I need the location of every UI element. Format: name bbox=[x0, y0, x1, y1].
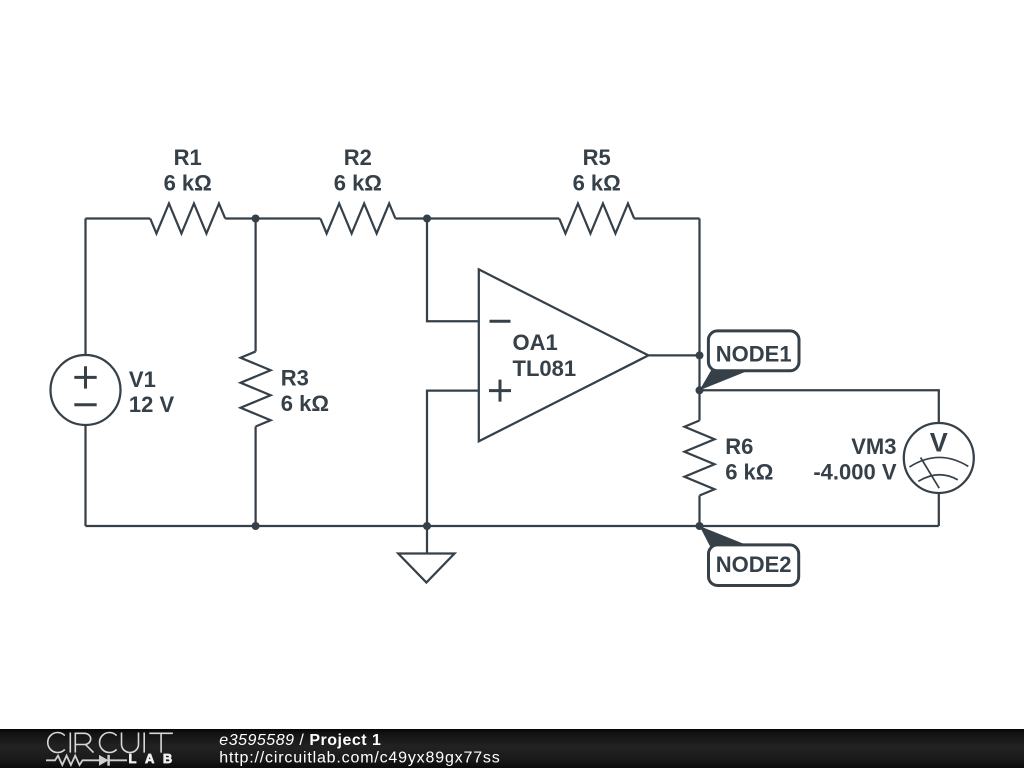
node flag NODE2 bbox=[700, 526, 799, 586]
junction NODE2 bbox=[696, 522, 704, 530]
svg-text:V: V bbox=[930, 427, 948, 457]
CircuitLab logo CIRCUIT bbox=[48, 732, 173, 752]
wire R5 to right corner bbox=[634, 217, 699, 219]
voltmeter VM3 bbox=[904, 423, 974, 493]
svg-text:-4.000 V: -4.000 V bbox=[813, 460, 896, 485]
svg-text:VM3: VM3 bbox=[851, 434, 896, 459]
label R2 6 kOhm bbox=[334, 145, 382, 195]
label R1 6 kOhm bbox=[164, 145, 212, 195]
junction ground rail bbox=[423, 522, 431, 530]
label R5 6 kOhm bbox=[573, 145, 621, 195]
label R3 6 kOhm bbox=[281, 365, 329, 415]
wire output node down to node NODE1 bbox=[698, 355, 700, 390]
wire R2 to R5 through node B bbox=[395, 217, 559, 219]
wire left vertical V1 top bbox=[84, 219, 86, 356]
wire R6 bottom to rail bbox=[698, 496, 700, 527]
svg-text:6 kΩ: 6 kΩ bbox=[334, 171, 382, 196]
wire NODE1 to voltmeter bbox=[700, 390, 939, 423]
wire R3 bottom to rail bbox=[254, 427, 256, 527]
wire V1 bottom to rail bbox=[84, 425, 86, 526]
resistor R1 bbox=[150, 204, 225, 234]
svg-text:e3595589 / Project 1: e3595589 / Project 1 bbox=[219, 732, 381, 749]
ground bbox=[398, 526, 454, 583]
junction node B bbox=[423, 215, 431, 223]
CircuitLab logo resistor diode wire bbox=[46, 755, 127, 766]
wire NODE1 down to R6 bbox=[698, 390, 700, 420]
wire op-amp output bbox=[648, 354, 699, 356]
svg-text:6 kΩ: 6 kΩ bbox=[281, 391, 329, 416]
junction NODE1 bbox=[696, 386, 704, 394]
op-amp OA1 bbox=[479, 269, 649, 441]
svg-text:R2: R2 bbox=[344, 145, 372, 170]
svg-text:R6: R6 bbox=[725, 434, 753, 459]
label V1 12 V bbox=[129, 367, 175, 417]
svg-text:12 V: 12 V bbox=[129, 392, 175, 417]
svg-text:6 kΩ: 6 kΩ bbox=[725, 459, 773, 484]
svg-text:LAB: LAB bbox=[129, 751, 181, 766]
wire bottom rail bbox=[86, 525, 939, 527]
wire op-amp plus input bbox=[427, 391, 479, 526]
svg-text:R5: R5 bbox=[583, 145, 611, 170]
wire right vertical down to op-amp output node bbox=[698, 219, 700, 356]
junction op-amp output bbox=[696, 351, 704, 359]
voltage source V1 bbox=[51, 355, 121, 425]
wire node B down to op-amp minus input bbox=[427, 219, 479, 322]
svg-text:http://circuitlab.com/c49yx89g: http://circuitlab.com/c49yx89gx77ss bbox=[219, 750, 500, 767]
resistor R3 bbox=[241, 352, 271, 427]
label OA1 TL081 bbox=[513, 330, 577, 381]
svg-text:R3: R3 bbox=[281, 365, 309, 390]
resistor R5 bbox=[559, 204, 634, 234]
svg-text:NODE1: NODE1 bbox=[716, 342, 792, 367]
svg-text:R1: R1 bbox=[174, 145, 202, 170]
wire top left from V1 to R1 bbox=[86, 217, 151, 219]
footer bar bbox=[0, 729, 1024, 768]
label VM3 -4.000 V bbox=[813, 434, 896, 485]
svg-text:6 kΩ: 6 kΩ bbox=[573, 171, 621, 196]
svg-text:TL081: TL081 bbox=[513, 356, 577, 381]
resistor R6 bbox=[685, 421, 715, 496]
wire voltmeter bottom to rail bbox=[938, 493, 940, 526]
junction R3 rail bbox=[252, 522, 260, 530]
svg-text:V1: V1 bbox=[129, 367, 156, 392]
wire node A down to R3 bbox=[254, 219, 256, 352]
svg-text:OA1: OA1 bbox=[513, 330, 558, 355]
svg-text:NODE2: NODE2 bbox=[716, 552, 792, 577]
resistor R2 bbox=[320, 204, 395, 234]
label R6 6 kOhm bbox=[725, 434, 773, 484]
svg-text:6 kΩ: 6 kΩ bbox=[164, 171, 212, 196]
node flag NODE1 bbox=[700, 331, 800, 390]
wire R1 to R2 through node A bbox=[225, 217, 320, 219]
junction node A bbox=[252, 215, 260, 223]
